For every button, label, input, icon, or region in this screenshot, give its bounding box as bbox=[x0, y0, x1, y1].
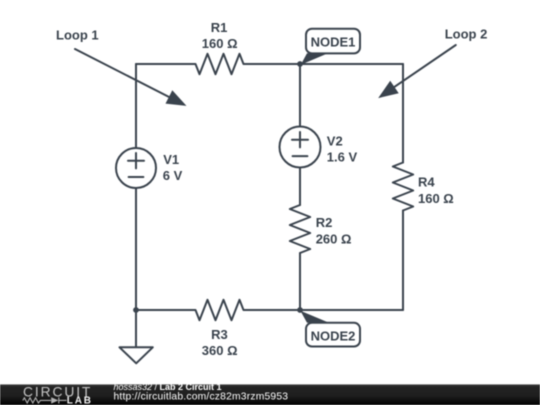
svg-text:260 Ω: 260 Ω bbox=[316, 232, 352, 247]
svg-text:V2: V2 bbox=[327, 133, 343, 148]
svg-text:http://circuitlab.com/cz82m3rz: http://circuitlab.com/cz82m3rzm5953 bbox=[114, 392, 289, 403]
svg-text:160 Ω: 160 Ω bbox=[202, 36, 238, 51]
svg-text:R3: R3 bbox=[211, 327, 228, 342]
svg-text:160 Ω: 160 Ω bbox=[418, 191, 454, 206]
svg-text:Loop 1: Loop 1 bbox=[56, 27, 99, 42]
svg-text:NODE1: NODE1 bbox=[311, 35, 356, 50]
svg-text:360 Ω: 360 Ω bbox=[202, 343, 238, 358]
svg-text:LAB: LAB bbox=[67, 395, 93, 405]
svg-text:V1: V1 bbox=[163, 152, 179, 167]
svg-text:R1: R1 bbox=[211, 20, 228, 35]
svg-text:NODE2: NODE2 bbox=[311, 329, 356, 344]
svg-text:R2: R2 bbox=[316, 215, 333, 230]
svg-text:6 V: 6 V bbox=[163, 168, 183, 183]
svg-text:1.6 V: 1.6 V bbox=[327, 149, 358, 164]
svg-text:R4: R4 bbox=[418, 175, 435, 190]
svg-text:Loop 2: Loop 2 bbox=[445, 27, 488, 42]
